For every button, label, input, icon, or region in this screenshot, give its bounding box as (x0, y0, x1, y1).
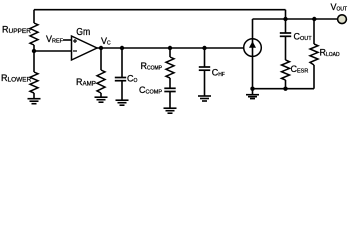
svg-text:CESR: CESR (291, 64, 309, 75)
resistor R_LOAD (310, 44, 318, 65)
svg-text:VC: VC (101, 36, 111, 47)
wire top rail (34, 9, 286, 11)
svg-text:CHF: CHF (212, 67, 225, 78)
svg-text:RUPPER: RUPPER (2, 25, 31, 36)
wire through current source (vertical) (252, 19, 254, 89)
wire top-left riser from R_UPPER to top rail (33, 10, 35, 23)
capacitor C_HF (199, 67, 210, 70)
svg-text:RLOWER: RLOWER (1, 73, 32, 84)
node dot R_LOAD tap (312, 17, 316, 21)
wire current source ground stub (252, 89, 254, 95)
wire C_COMP bottom to ground (169, 92, 171, 109)
wire C_OUT branch from output node (285, 19, 287, 33)
wire R_LOWER bottom to ground (33, 93, 35, 99)
resistor R_UPPER (30, 23, 38, 45)
svg-text:CO: CO (127, 74, 138, 85)
svg-text:RCOMP: RCOMP (141, 61, 163, 72)
wire C_O branch from mid line (121, 48, 123, 78)
ground (R_AMP) (95, 97, 108, 102)
wire R_LOAD branch from output node (313, 19, 315, 44)
wire R_LOAD bottom riser (313, 65, 315, 89)
svg-text:COUT: COUT (294, 31, 313, 42)
resistor R_LOWER (30, 72, 38, 93)
ground (current source) (246, 95, 259, 99)
svg-text:CCOMP: CCOMP (139, 85, 162, 96)
resistor R_COMP (166, 57, 174, 78)
wire R_UPPER bottom to divider node to R_LOWER top (33, 45, 35, 72)
resistor R_AMP (97, 70, 105, 93)
op-amp Gm (transconductance amplifier) (72, 36, 98, 60)
terminal V_OUT (338, 15, 347, 24)
wire R_COMP bottom to C_COMP top (169, 78, 171, 88)
node dot output junction (283, 17, 287, 21)
wire right drop from top rail to output node (285, 10, 287, 19)
wire R_COMP branch from mid line (169, 48, 171, 57)
svg-text:VREF: VREF (46, 34, 64, 45)
capacitor C_OUT (280, 33, 291, 36)
wire R_AMP branch from Vc node (100, 48, 102, 70)
capacitor C_COMP (164, 88, 175, 91)
wire C_O bottom to ground (121, 81, 123, 100)
wire mid line Vc node to current source (96, 47, 244, 49)
capacitor C_O (115, 78, 126, 81)
node dot divider junction (32, 49, 36, 53)
wire C_HF bottom to ground (204, 70, 206, 96)
svg-text:RLOAD: RLOAD (320, 48, 341, 59)
wire C_OUT bottom to C_ESR top (285, 36, 287, 60)
op-amp plus input symbol (73, 39, 77, 43)
ground (C_COMP) (164, 108, 177, 113)
wire C_HF branch from mid line (204, 48, 206, 67)
node dot Vc (99, 46, 103, 50)
node dot R_COMP tap (168, 46, 172, 50)
svg-text:Gm: Gm (76, 26, 90, 38)
wire R_AMP bottom to ground (100, 93, 102, 97)
op-amp minus input symbol (73, 50, 77, 52)
node dot C_HF tap (202, 46, 206, 50)
current source GmVc (244, 39, 262, 57)
wire C_ESR bottom to bottom rail (285, 80, 287, 89)
wire feedback from divider to op-amp inverting input (34, 50, 72, 52)
ground (C_HF) (198, 96, 211, 101)
wire bottom rail (253, 88, 315, 90)
svg-text:VOUT: VOUT (331, 2, 348, 13)
resistor C_ESR (ESR of output cap drawn as resistor) (282, 60, 290, 80)
svg-text:RAMP: RAMP (76, 77, 96, 88)
node dot bottom junction (283, 87, 287, 91)
wire output node line to VOUT terminal (253, 18, 338, 20)
node dot C_O tap (120, 46, 124, 50)
wire VREF stub to op-amp non-inverting input (63, 39, 72, 41)
current source arrow head (249, 41, 256, 48)
node dot current source bottom (250, 87, 254, 91)
ground (R_LOWER) (28, 99, 41, 104)
ground (C_O) (116, 100, 129, 105)
